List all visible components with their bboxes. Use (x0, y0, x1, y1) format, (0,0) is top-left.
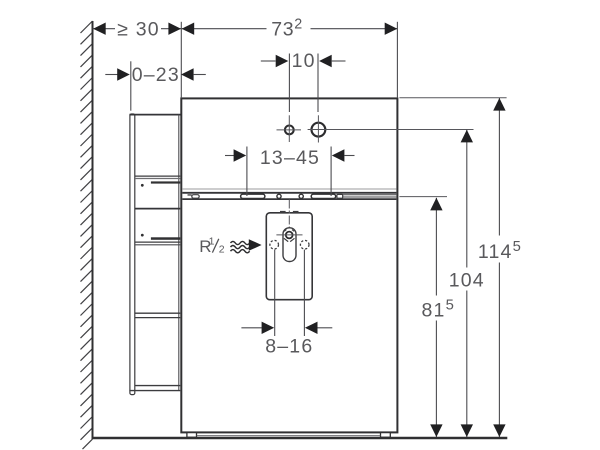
cabinet shelf line 5 (135, 317, 180, 319)
arrowhead ≥30 right (168, 23, 181, 35)
bolt hex chamfer top left (284, 230, 286, 232)
tap hole small crosshair horizontal (277, 129, 302, 131)
dimension 81.5 line lower (435, 321, 437, 438)
dimension 8-16 stub left (241, 327, 261, 329)
arrowhead 104 bottom (461, 424, 473, 437)
water supply waves (231, 241, 250, 252)
box vertical centerline (288, 200, 290, 263)
svg-text:0–23: 0–23 (132, 64, 180, 86)
svg-text:1: 1 (209, 235, 215, 247)
tap hole large (312, 123, 326, 137)
cabinet shelf line 3b (135, 244, 180, 246)
plinth line (197, 435, 381, 437)
dimension 8-16 stub right (318, 327, 333, 329)
extension line 114.5 top (399, 97, 506, 99)
water connection box (266, 213, 312, 300)
bolt hex chamfer top right (292, 230, 294, 232)
arrowhead 10 right (319, 55, 332, 67)
dimension 10 stub right (332, 60, 346, 62)
side cabinet right inner edge (178, 115, 180, 391)
rail rod top line (343, 194, 397, 196)
rail bottom line (182, 198, 396, 200)
rail capsule left (241, 194, 265, 198)
cabinet knob dot 2 (141, 234, 144, 237)
rail capsule right (311, 194, 336, 198)
dashed hole right (300, 240, 309, 249)
dimension 114.5 line lower (498, 263, 500, 438)
arrowhead 114.5 bottom (493, 424, 505, 437)
rail screw left (277, 194, 281, 198)
rail clip left cap (192, 195, 199, 199)
slot capsule (283, 228, 296, 262)
arrowhead 0-23 right (181, 68, 194, 80)
dimension 0-23 stub left (105, 74, 117, 76)
arrowhead 10 left (276, 55, 289, 67)
bolt horizontal centerline (276, 234, 302, 236)
cabinet bottom line 1 (135, 385, 180, 387)
tick 13-45 right (330, 147, 332, 197)
foot left (187, 433, 197, 438)
rail top line (182, 192, 396, 194)
arrowhead 13-45 right (332, 149, 345, 161)
bolt hex chamfer bottom right (290, 238, 294, 241)
sanitary module outline (181, 98, 397, 432)
arrowhead 73-2 left (182, 23, 195, 35)
box top tab left (280, 211, 286, 213)
extension line x=397.4 top (396, 22, 398, 98)
extension line 81.5 right (399, 196, 447, 198)
bolt hex chamfer bottom left (284, 238, 288, 241)
dashed hole left (270, 240, 279, 249)
dimension line ≥30 (93, 28, 181, 30)
dimension 13-45 stub right (344, 155, 354, 157)
cabinet shelf line 3 (135, 241, 180, 243)
dimension line 73-2 (182, 28, 398, 30)
arrowhead ≥30 left (93, 23, 106, 35)
rail screw right (299, 194, 303, 198)
svg-text:≥ 30: ≥ 30 (117, 18, 160, 40)
bolt circle (286, 232, 293, 239)
foot right (381, 433, 391, 438)
svg-text:2: 2 (219, 243, 225, 255)
arrowhead 0-23 left (117, 68, 130, 80)
side cabinet top (129, 114, 181, 116)
cabinet bottom line 2 (129, 390, 180, 392)
tap hole large crosshair and 104 extension line (308, 129, 474, 131)
arrowhead 13-45 left (234, 149, 247, 161)
rail clip left (188, 194, 192, 195)
dimension 13-45 stub left (225, 155, 235, 157)
arrowhead 8-16 left (262, 322, 275, 334)
tap hole small crosshair vertical (288, 115, 290, 142)
label R1/2 slash (212, 239, 218, 253)
wall hatching (81, 21, 93, 449)
cabinet shelf line 1b (135, 178, 180, 180)
svg-text:8–16: 8–16 (265, 335, 313, 357)
label ≥30 background (115, 20, 161, 37)
panel seam thin line (182, 188, 396, 190)
extension line x=181.3 top (180, 22, 182, 98)
box top tab right (293, 211, 299, 213)
arrowhead 81.5 bottom (430, 424, 442, 437)
arrowhead 73-2 right (385, 23, 398, 35)
tap hole small (285, 125, 294, 134)
water supply arrow (249, 239, 262, 251)
rail rod bottom line (343, 196, 397, 198)
dimension 10 stub left (261, 60, 276, 62)
svg-text:104: 104 (449, 270, 485, 292)
svg-text:13–45: 13–45 (260, 147, 320, 169)
side cabinet left plank (130, 114, 135, 395)
floor (92, 437, 508, 439)
cabinet drawer front band 2 (151, 237, 180, 240)
dimension 114.5 line upper (498, 98, 500, 236)
arrowhead 81.5 top (430, 198, 442, 211)
svg-text:10: 10 (292, 50, 316, 72)
dimension 81.5 line upper (435, 198, 437, 296)
cabinet knob dot 1 (141, 184, 144, 187)
tick 0-23 left (130, 61, 132, 110)
tick 13-45 left (246, 147, 248, 197)
label 73-2 background (267, 15, 311, 38)
arrowhead 114.5 top (493, 98, 505, 111)
dimension 0-23 stub right (194, 74, 206, 76)
rail end piece (337, 194, 343, 198)
arrowhead 104 top (461, 130, 473, 143)
tap hole large crosshair vertical (317, 115, 319, 142)
dimension 104 line upper (466, 130, 468, 268)
tick 10 right (317, 54, 319, 113)
tick 8-16 left (274, 250, 276, 336)
cabinet shelf line 2 (135, 208, 180, 210)
tick 8-16 right (303, 250, 305, 336)
cabinet drawer front band 1 (151, 181, 180, 183)
arrowhead 8-16 right (305, 322, 318, 334)
tick 10 left (288, 54, 290, 113)
cabinet shelf line 1 (135, 175, 180, 177)
dimension 104 line lower (466, 291, 468, 438)
wall (92, 21, 94, 439)
cabinet shelf line 4 (135, 312, 180, 314)
